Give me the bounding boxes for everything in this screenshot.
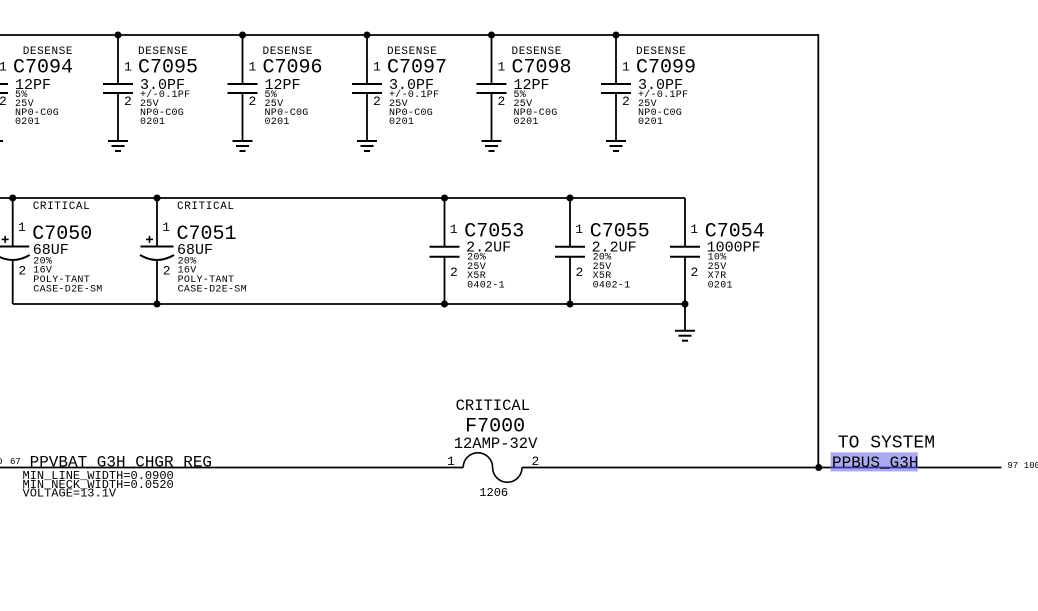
attributes of C7053 bbox=[467, 253, 505, 292]
polarized capacitor C7050 bbox=[0, 198, 30, 304]
svg-text:TO SYSTEM: TO SYSTEM bbox=[838, 434, 935, 454]
svg-text:2: 2 bbox=[450, 265, 458, 280]
svg-text:C7095: C7095 bbox=[138, 56, 198, 79]
svg-text:67: 67 bbox=[10, 457, 21, 467]
plus polarity mark of C7050 bbox=[2, 236, 9, 243]
wire PPVBAT_G3H_CHGR_REG bottom left bbox=[0, 467, 463, 469]
svg-text:1: 1 bbox=[447, 454, 455, 469]
ground below C7099 bbox=[606, 141, 626, 151]
junction dot at C7054 bottom bbox=[682, 301, 689, 308]
junction dot at C7051 bottom bbox=[154, 301, 161, 308]
svg-text:2: 2 bbox=[691, 265, 699, 280]
svg-text:2: 2 bbox=[576, 265, 584, 280]
junction dot at C7050 top bbox=[9, 195, 16, 202]
svg-text:0402-1: 0402-1 bbox=[593, 281, 631, 292]
svg-text:1: 1 bbox=[18, 220, 26, 235]
svg-text:1: 1 bbox=[575, 222, 583, 237]
highlighted net PPBUS_G3H bbox=[831, 452, 919, 472]
svg-text:1206: 1206 bbox=[479, 486, 508, 500]
ground below C7095 bbox=[108, 141, 128, 151]
plus polarity mark of C7051 bbox=[146, 236, 153, 243]
svg-text:0201: 0201 bbox=[265, 117, 290, 128]
capacitor C7097 bbox=[352, 35, 382, 141]
svg-text:100: 100 bbox=[1024, 461, 1038, 471]
junction dot at C7097 top bbox=[364, 32, 371, 39]
capacitor C7098 bbox=[477, 35, 507, 141]
svg-text:1: 1 bbox=[373, 60, 381, 75]
svg-text:2: 2 bbox=[249, 94, 257, 109]
svg-text:1: 1 bbox=[690, 222, 698, 237]
capacitor C7096 bbox=[228, 35, 258, 141]
attributes of C7051 bbox=[178, 256, 247, 295]
svg-text:0: 0 bbox=[0, 457, 3, 467]
svg-text:C7097: C7097 bbox=[387, 56, 447, 79]
svg-text:CASE-D2E-SM: CASE-D2E-SM bbox=[178, 284, 247, 295]
svg-text:2: 2 bbox=[498, 94, 506, 109]
svg-text:1: 1 bbox=[249, 60, 257, 75]
svg-text:2: 2 bbox=[0, 94, 7, 109]
svg-text:0201: 0201 bbox=[140, 117, 165, 128]
svg-text:12AMP-32V: 12AMP-32V bbox=[454, 435, 538, 453]
svg-text:2: 2 bbox=[622, 94, 630, 109]
svg-text:0201: 0201 bbox=[389, 117, 414, 128]
ground below C7096 bbox=[233, 141, 253, 151]
attributes of C7097 bbox=[389, 89, 439, 128]
svg-text:VOLTAGE=13.1V: VOLTAGE=13.1V bbox=[23, 487, 117, 501]
svg-text:1: 1 bbox=[622, 60, 630, 75]
svg-text:CRITICAL: CRITICAL bbox=[33, 201, 91, 213]
wire right vertical from top bus to PPBUS_G3H bbox=[817, 34, 819, 467]
wire middle row top bbox=[0, 197, 685, 199]
attributes of C7050 bbox=[33, 256, 102, 295]
svg-text:2: 2 bbox=[18, 264, 26, 279]
ground below C7097 bbox=[357, 141, 377, 151]
attributes of C7099 bbox=[638, 89, 688, 128]
capacitor C7054 bbox=[670, 198, 700, 304]
junction dot at C7051 top bbox=[154, 195, 161, 202]
junction dot at C7053 bottom bbox=[441, 301, 448, 308]
svg-text:2: 2 bbox=[124, 94, 132, 109]
svg-text:2: 2 bbox=[532, 454, 540, 469]
wire middle row bottom bbox=[13, 303, 685, 305]
svg-text:1: 1 bbox=[0, 60, 7, 75]
capacitor C7095 bbox=[103, 35, 133, 141]
junction dot at C7095 top bbox=[115, 32, 122, 39]
ground below C7094 bbox=[0, 141, 3, 151]
junction dot at C7099 top bbox=[613, 32, 620, 39]
svg-text:0201: 0201 bbox=[15, 117, 40, 128]
capacitor C7055 bbox=[555, 198, 585, 304]
capacitor C7099 bbox=[601, 35, 631, 141]
wire from C7054 to ground bbox=[684, 304, 686, 331]
junction dot at C7055 bottom bbox=[567, 301, 574, 308]
svg-text:C7099: C7099 bbox=[636, 56, 696, 79]
wire PPBUS_G3H bottom right bbox=[522, 467, 1002, 469]
junction dot at PPBUS_G3H bbox=[815, 464, 822, 471]
svg-text:CRITICAL: CRITICAL bbox=[456, 397, 530, 415]
svg-text:0201: 0201 bbox=[708, 281, 733, 292]
svg-text:1: 1 bbox=[124, 60, 132, 75]
attributes of C7055 bbox=[593, 253, 631, 292]
polarized capacitor C7051 bbox=[140, 198, 174, 304]
svg-text:C7098: C7098 bbox=[512, 56, 572, 79]
svg-text:0201: 0201 bbox=[514, 117, 539, 128]
attributes of C7054 bbox=[708, 253, 733, 292]
attributes of C7098 bbox=[514, 90, 558, 128]
svg-text:2: 2 bbox=[373, 94, 381, 109]
svg-text:0402-1: 0402-1 bbox=[467, 281, 505, 292]
capacitor C7094 bbox=[0, 35, 8, 141]
svg-text:1: 1 bbox=[162, 220, 170, 235]
junction dot at C7098 top bbox=[488, 32, 495, 39]
attributes of C7096 bbox=[265, 90, 309, 128]
svg-text:2: 2 bbox=[163, 264, 171, 279]
svg-text:CRITICAL: CRITICAL bbox=[177, 201, 235, 213]
svg-text:C7094: C7094 bbox=[13, 56, 73, 79]
junction dot at C7055 top bbox=[567, 195, 574, 202]
capacitor C7053 bbox=[430, 198, 460, 304]
attributes of C7095 bbox=[140, 89, 190, 128]
fuse F7000 bbox=[463, 453, 522, 482]
svg-text:1: 1 bbox=[498, 60, 506, 75]
svg-text:97: 97 bbox=[1007, 461, 1018, 471]
ground below C7098 bbox=[482, 141, 502, 151]
junction dot at C7096 top bbox=[239, 32, 246, 39]
svg-text:0201: 0201 bbox=[638, 117, 663, 128]
attributes of C7094 bbox=[15, 90, 59, 128]
svg-text:CASE-D2E-SM: CASE-D2E-SM bbox=[33, 284, 102, 295]
svg-text:1: 1 bbox=[450, 222, 458, 237]
wire PPVBAT_G3H_CHGR_REG top bus bbox=[0, 34, 818, 36]
svg-text:PPBUS_G3H: PPBUS_G3H bbox=[832, 454, 918, 472]
junction dot at C7053 top bbox=[441, 195, 448, 202]
ground below C7054 bbox=[675, 331, 695, 341]
svg-text:C7096: C7096 bbox=[263, 56, 323, 79]
